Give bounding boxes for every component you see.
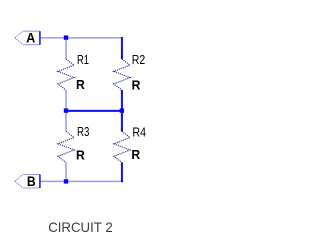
svg-text:R4: R4 — [132, 124, 146, 139]
svg-text:R1: R1 — [77, 52, 89, 67]
svg-text:R: R — [131, 147, 140, 162]
svg-text:CIRCUIT 2: CIRCUIT 2 — [48, 219, 113, 235]
svg-text:A: A — [26, 31, 35, 46]
svg-text:R: R — [76, 77, 85, 92]
svg-text:R3: R3 — [77, 124, 89, 139]
svg-text:B: B — [27, 174, 36, 189]
svg-text:R: R — [76, 148, 85, 163]
svg-text:R: R — [132, 77, 141, 92]
svg-text:R2: R2 — [132, 52, 145, 67]
